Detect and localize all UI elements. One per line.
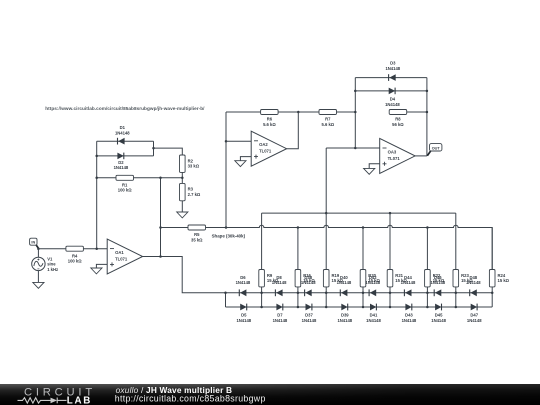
svg-text:D43: D43: [405, 313, 413, 318]
svg-text:1N4148: 1N4148: [337, 280, 352, 285]
wire R8 to right column: [407, 111, 427, 113]
diode D40: [340, 289, 347, 296]
diode D4: [389, 88, 395, 95]
svg-text:15 kΩ: 15 kΩ: [498, 278, 510, 283]
wire to OA2 - input: [226, 140, 251, 142]
junction loop left / D4 row: [354, 90, 357, 93]
wire OA3 output: [415, 155, 427, 157]
svg-text:1N4148: 1N4148: [114, 165, 129, 170]
svg-text:D46: D46: [434, 275, 442, 280]
resistor R9: [259, 270, 279, 287]
diode D42: [369, 289, 376, 296]
junction middle row x=455.8: [455, 292, 458, 295]
junction OA1 output / feedback column: [159, 255, 162, 258]
svg-text:Shape (30k-40k): Shape (30k-40k): [212, 233, 246, 238]
junction feedback column / R5 row: [159, 226, 162, 229]
junction rail B / OA2 column: [225, 226, 228, 229]
junction rail B / R20 column: [362, 226, 365, 229]
svg-text:1N4148: 1N4148: [466, 280, 481, 285]
svg-text:TL071: TL071: [115, 256, 128, 261]
ground OA1 non-inverting input: [91, 268, 102, 274]
wire OA3 - down to rail A: [325, 148, 327, 213]
svg-text:1N4148: 1N4148: [402, 318, 417, 323]
wire R7 to D3 loop: [336, 111, 355, 113]
diode D41: [370, 304, 376, 311]
wire column R24 upper: [491, 228, 493, 270]
svg-text:D38: D38: [304, 275, 312, 280]
resistor R2: [180, 155, 200, 172]
svg-text:5.6 kΩ: 5.6 kΩ: [321, 122, 334, 127]
svg-text:2.7 kΩ: 2.7 kΩ: [188, 192, 201, 197]
resistor R4: [66, 246, 84, 263]
wire R1 row: [97, 177, 183, 179]
svg-text:https://www.circuitlab.com/cir: https://www.circuitlab.com/circuit/85ab8…: [45, 106, 205, 111]
wire column R20 lower: [362, 287, 364, 293]
diode D39: [341, 304, 347, 311]
junction rail A / OA3 column: [325, 212, 328, 215]
wire column R9 upper: [261, 213, 263, 269]
junction middle row x=363.0: [362, 292, 365, 295]
wire ladder middle row: [226, 292, 493, 294]
svg-text:R3: R3: [188, 187, 194, 192]
junction R1 row / R2-R3: [181, 177, 184, 180]
svg-text:D1: D1: [120, 125, 126, 130]
resistor R19: [323, 270, 343, 287]
wire jumper at x=455.8: [455, 293, 457, 307]
wire column R24 lower: [491, 287, 493, 293]
junction rail A / R21 column: [389, 212, 392, 215]
diode D37: [306, 304, 312, 311]
svg-text:OA2: OA2: [259, 142, 268, 147]
wire column R22 lower: [426, 287, 428, 293]
resistor R8: [389, 110, 407, 127]
wire jumper at x=326.2: [325, 293, 327, 307]
diode D8: [275, 289, 282, 296]
wire column R19 lower: [325, 287, 327, 293]
wire OA3 - input row: [326, 147, 380, 149]
svg-text:D3: D3: [390, 61, 396, 66]
junction bottom row x=455.8: [455, 306, 458, 309]
svg-text:D48: D48: [469, 275, 477, 280]
svg-text:D45: D45: [435, 313, 443, 318]
wire D3 row: [355, 77, 427, 79]
svg-text:D44: D44: [404, 275, 412, 280]
node flag OUT: [427, 144, 442, 156]
junction R6 row / OA2 output: [297, 111, 300, 114]
wire jumper at x=363.0: [362, 293, 364, 307]
svg-text:V1: V1: [47, 256, 53, 261]
wire OA2 + to ground: [240, 157, 251, 161]
junction D3 loop column / - row: [354, 147, 357, 150]
svg-text:TL071: TL071: [388, 156, 401, 161]
svg-text:R8: R8: [395, 117, 401, 122]
svg-text:D7: D7: [277, 313, 283, 318]
wire node to V1: [37, 249, 39, 258]
wire left feedback column: [96, 141, 98, 249]
junction bottom row x=363.0: [362, 306, 365, 309]
wire OA1 output to ladder: [143, 257, 226, 293]
svg-text:R2: R2: [188, 158, 194, 163]
junction middle row x=261.6: [260, 292, 263, 295]
junction left column / D2 row: [95, 155, 98, 158]
junction bottom row x=390.0: [389, 306, 392, 309]
junction middle row x=427.4: [426, 292, 429, 295]
wire R4 to OA1 inverting input: [83, 248, 107, 250]
wire column R21 lower: [389, 287, 391, 293]
svg-text:LAB: LAB: [67, 396, 92, 405]
svg-text:R21: R21: [395, 273, 403, 278]
ground OA3 non-inverting input: [364, 168, 375, 174]
ground below V1: [33, 282, 44, 288]
wire D4 row: [355, 90, 427, 92]
junction R1 row / OA1 output column: [159, 177, 162, 180]
resistor R16: [295, 270, 315, 287]
svg-text:1 kHz: 1 kHz: [47, 267, 58, 272]
diode D38: [305, 289, 312, 296]
svg-text:OA3: OA3: [388, 149, 397, 154]
svg-text:56 kΩ: 56 kΩ: [392, 122, 404, 127]
resistor R7: [319, 110, 337, 127]
op-amp OA2: [251, 131, 286, 166]
node flag IN: [30, 238, 39, 248]
junction loop right / D4 row: [426, 90, 429, 93]
svg-text:100 kΩ: 100 kΩ: [68, 259, 82, 264]
svg-text:sine: sine: [47, 262, 56, 267]
svg-text:D40: D40: [340, 275, 348, 280]
svg-text:1N4148: 1N4148: [272, 280, 287, 285]
wire OA1 + to ground: [96, 264, 107, 268]
resistor R23: [453, 270, 473, 287]
svg-text:IN: IN: [31, 241, 35, 245]
wire D1 row: [97, 140, 154, 142]
wire R6 to R7: [278, 111, 319, 113]
wire column R16 lower: [297, 287, 299, 293]
svg-text:1N4148: 1N4148: [115, 131, 130, 136]
wire right side of D1-D2 loop: [153, 141, 155, 156]
junction bottom row x=297.9: [297, 306, 300, 309]
resistor R1: [116, 175, 134, 192]
svg-text:33 kΩ: 33 kΩ: [188, 164, 200, 169]
svg-text:D2: D2: [118, 160, 124, 165]
wire OA2 inverting column: [225, 112, 227, 228]
resistor R3: [180, 183, 201, 200]
wire rail A: [262, 212, 456, 214]
wire jumper at x=427.4: [426, 293, 428, 307]
svg-text:R1: R1: [122, 182, 128, 187]
svg-text:1N4148: 1N4148: [431, 318, 446, 323]
junction feedback column / R4 row: [95, 247, 98, 250]
svg-text:D37: D37: [305, 313, 313, 318]
wire column R21 upper: [389, 213, 391, 269]
logo resistor zigzag and diode: [18, 398, 67, 404]
svg-text:1N4148: 1N4148: [273, 318, 288, 323]
svg-text:R9: R9: [267, 273, 273, 278]
junction middle row x=297.9: [297, 292, 300, 295]
diode D45: [435, 304, 441, 311]
junction middle row x=390.0: [389, 292, 392, 295]
wire column R9 lower: [261, 287, 263, 293]
diode D1: [118, 138, 125, 145]
svg-text:TL071: TL071: [259, 149, 272, 154]
wire jumper at x=261.6: [261, 293, 263, 307]
diode D43: [405, 304, 411, 311]
svg-text:R24: R24: [498, 273, 506, 278]
wire D3 loop right column: [426, 78, 428, 156]
resistor R6: [261, 110, 279, 127]
wire column R20 upper: [362, 228, 364, 270]
svg-text:R19: R19: [332, 273, 340, 278]
wire column R23 lower: [455, 287, 457, 293]
svg-text:D5: D5: [241, 313, 247, 318]
wire rail B to ladder resistors: [206, 225, 493, 269]
node IN junction: [37, 247, 40, 250]
svg-text:5.6 kΩ: 5.6 kΩ: [263, 122, 276, 127]
diode D6: [239, 289, 246, 296]
wire R6 row left: [226, 111, 261, 113]
svg-text:D39: D39: [341, 313, 349, 318]
source V1 sine: [32, 257, 45, 270]
svg-text:D47: D47: [470, 313, 478, 318]
junction bottom row x=261.6: [260, 306, 263, 309]
wire jumper at x=297.9: [297, 293, 299, 307]
svg-text:D42: D42: [369, 275, 377, 280]
diode D44: [404, 289, 411, 296]
svg-text:D6: D6: [240, 275, 246, 280]
svg-text:OA1: OA1: [115, 250, 124, 255]
junction loop left / R8 row: [354, 111, 357, 114]
resistor R21: [387, 270, 407, 287]
svg-text:1N4148: 1N4148: [401, 280, 416, 285]
wire R2 to R3: [181, 172, 183, 183]
diode D2: [117, 153, 123, 160]
junction bottom row x=427.4: [426, 306, 429, 309]
junction OA2 column / - input: [225, 140, 228, 143]
svg-text:R7: R7: [325, 117, 331, 122]
wire R5 row left: [161, 227, 189, 229]
svg-text:R6: R6: [267, 117, 273, 122]
ground below R3: [177, 212, 188, 218]
ground OA2 non-inverting input: [235, 161, 246, 167]
junction middle row x=326.2: [325, 292, 328, 295]
svg-text:100 kΩ: 100 kΩ: [118, 188, 132, 193]
wire D3 loop left column: [354, 78, 356, 148]
svg-text:http://circuitlab.com/c85ab8sr: http://circuitlab.com/c85ab8srubgwp: [115, 394, 266, 404]
junction ladder left end: [224, 292, 227, 295]
diode D5: [240, 304, 247, 311]
op-amp OA3: [380, 138, 415, 173]
wire ladder bottom row: [226, 306, 493, 308]
wire feedback column R1-R5-output: [160, 178, 162, 257]
svg-text:R5: R5: [194, 232, 200, 237]
svg-text:35 kΩ: 35 kΩ: [191, 237, 203, 242]
svg-text:R4: R4: [72, 253, 78, 258]
wire OA3 + to ground: [369, 164, 380, 169]
wire D2 row: [97, 155, 154, 157]
wire OA2 output up to R6 row: [287, 112, 299, 149]
diode D48: [470, 289, 477, 296]
junction rail B / R16 column: [297, 226, 300, 229]
svg-text:D4: D4: [390, 97, 396, 102]
wire ladder right end jumper: [491, 293, 493, 307]
wire jumper at x=390.0: [389, 293, 391, 307]
svg-text:D8: D8: [276, 275, 282, 280]
svg-text:1N4148: 1N4148: [385, 66, 400, 71]
wire IN to R4: [38, 248, 66, 250]
svg-text:D41: D41: [370, 313, 378, 318]
svg-text:1N4148: 1N4148: [236, 318, 251, 323]
svg-text:1N4148: 1N4148: [467, 318, 482, 323]
wire R3 to ground: [181, 201, 183, 212]
junction loop right / R8 row: [426, 111, 429, 114]
svg-text:1N4148: 1N4148: [302, 318, 317, 323]
wire ladder left end jumper: [225, 293, 227, 307]
junction left column / R1 row: [95, 177, 98, 180]
svg-text:1N4148: 1N4148: [365, 280, 380, 285]
resistor R24: [489, 270, 509, 287]
svg-text:1N4148: 1N4148: [236, 280, 251, 285]
junction bottom row x=326.2: [325, 306, 328, 309]
svg-text:OUT: OUT: [432, 146, 441, 150]
svg-text:1N4148: 1N4148: [337, 318, 352, 323]
junction tap to R2: [152, 147, 155, 150]
resistor R22: [425, 270, 445, 287]
wire V1 to ground: [37, 271, 39, 283]
wire column R23 upper: [455, 213, 457, 269]
diode D7: [276, 304, 282, 311]
op-amp OA1: [107, 239, 142, 274]
svg-text:1N4148: 1N4148: [385, 102, 400, 107]
diode D3: [389, 74, 396, 81]
wire column R16 upper: [297, 228, 299, 270]
resistor R20: [360, 270, 380, 287]
resistor R5: [188, 225, 206, 242]
svg-text:1N4148: 1N4148: [301, 280, 316, 285]
svg-text:1N4148: 1N4148: [430, 280, 445, 285]
svg-text:1N4148: 1N4148: [366, 318, 381, 323]
wire column R19 upper: [325, 213, 327, 269]
diode D47: [471, 304, 477, 311]
wire tap to R2: [154, 148, 183, 155]
diode D46: [434, 289, 441, 296]
wire column R22 upper: [426, 228, 428, 270]
junction ladder right end: [491, 292, 494, 295]
svg-text:R23: R23: [461, 273, 469, 278]
junction rail B / R22 column: [426, 226, 429, 229]
